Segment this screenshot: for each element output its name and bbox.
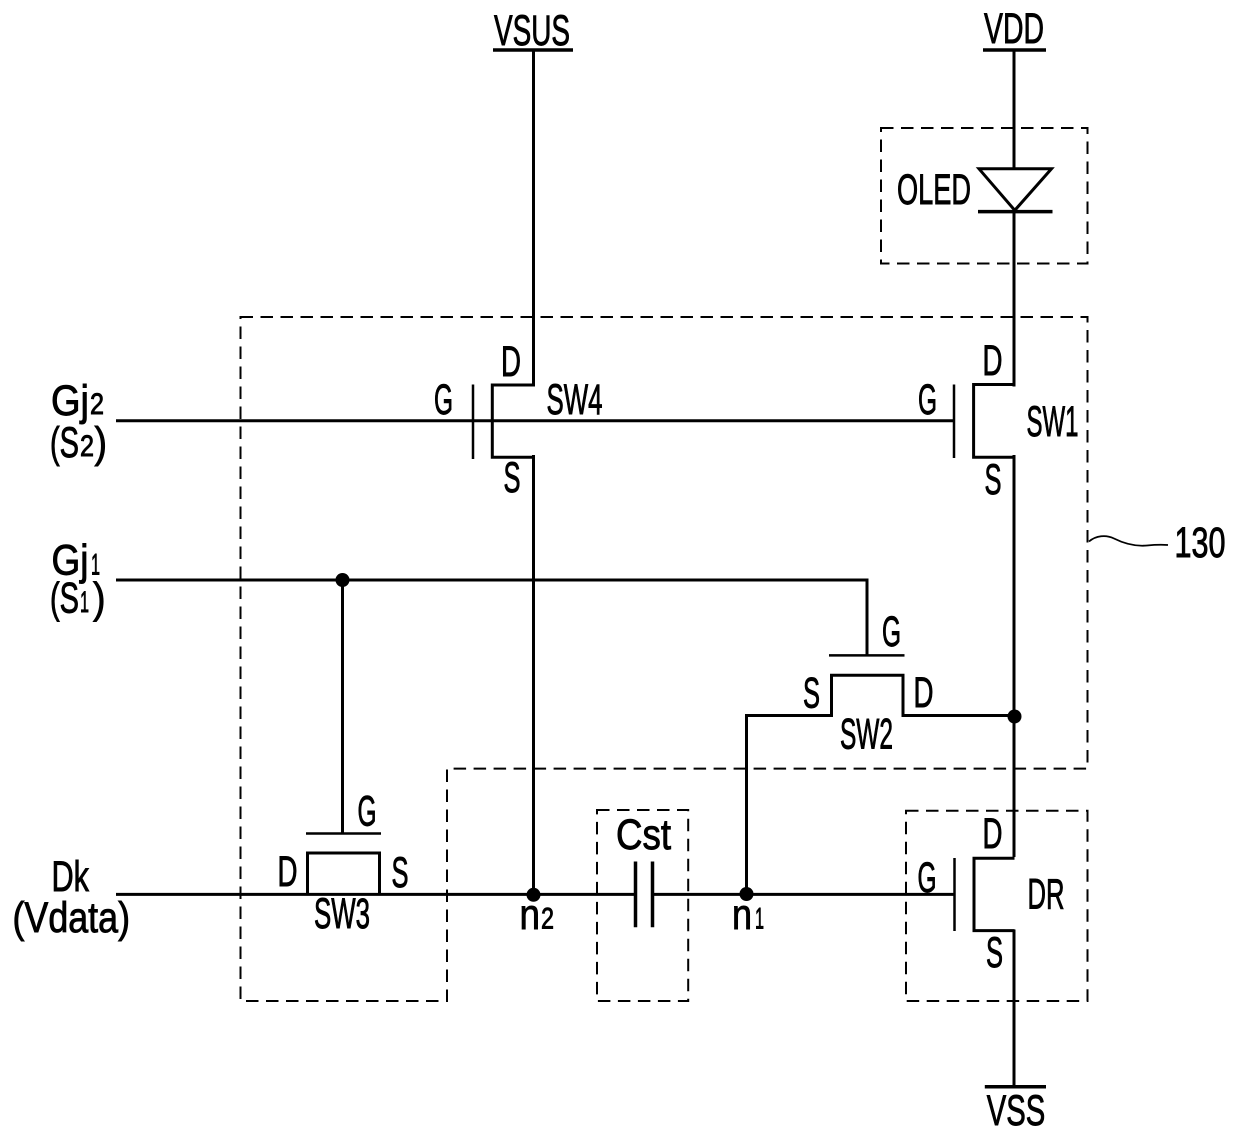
svg-text:VDD: VDD [984, 5, 1044, 53]
wire SW1 source down through node to DR drain [1013, 455, 1016, 857]
svg-text:VSS: VSS [987, 1087, 1046, 1135]
svg-text:S: S [985, 456, 1002, 504]
svg-text:SW3: SW3 [314, 890, 370, 938]
svg-text:n: n [520, 891, 541, 939]
svg-text:D: D [983, 337, 1003, 385]
svg-text:S: S [986, 929, 1003, 977]
transistor SW4 channel body [492, 385, 533, 457]
wire Gj1 row line [116, 579, 868, 582]
svg-text:S: S [504, 454, 521, 502]
junction dot on Gj1 at SW3 gate riser [336, 573, 350, 587]
svg-text:S: S [803, 670, 820, 718]
wire OLED cathode to SW1 drain [1013, 212, 1016, 387]
svg-text:): ) [93, 575, 106, 623]
svg-text:SW4: SW4 [547, 376, 603, 424]
svg-text:G: G [918, 376, 937, 424]
svg-text:2: 2 [80, 430, 94, 463]
diode OLED cathode bar [978, 210, 1053, 214]
svg-text:2: 2 [541, 903, 554, 936]
wire SW2 gate riser [866, 579, 869, 656]
svg-text:2: 2 [90, 388, 104, 421]
svg-text:n: n [732, 891, 752, 939]
svg-text:G: G [358, 788, 377, 836]
svg-text:): ) [95, 419, 108, 467]
power VSS rail bar [985, 1085, 1046, 1089]
svg-text:1: 1 [80, 586, 89, 619]
svg-text:130: 130 [1175, 519, 1226, 567]
power VSUS rail bar [493, 48, 573, 52]
svg-text:OLED: OLED [897, 166, 971, 214]
svg-text:D: D [278, 848, 298, 896]
svg-text:G: G [918, 854, 937, 902]
node n2 junction dot [527, 888, 541, 902]
svg-text:G: G [434, 376, 453, 424]
node n1 junction dot [740, 887, 754, 901]
transistor DR channel body [974, 858, 1015, 930]
svg-text:Gj: Gj [51, 377, 89, 425]
wire SW3 gate riser [341, 580, 344, 833]
transistor SW2 gate bar [829, 654, 905, 657]
wire VDD to OLED anode [1013, 50, 1016, 170]
diode OLED triangle [979, 169, 1052, 211]
svg-text:VSUS: VSUS [494, 7, 570, 55]
transistor SW1 channel body [974, 385, 1014, 458]
svg-text:(S: (S [50, 419, 79, 467]
transistor SW1 gate bar [953, 385, 956, 459]
transistor DR gate bar [953, 858, 956, 931]
capacitor Cst left plate [634, 862, 638, 928]
wire Gj2 row line [116, 419, 953, 422]
svg-text:Cst: Cst [616, 811, 671, 859]
transistor SW3 gate bar [306, 832, 381, 835]
junction dot SW2 drain on SW1-DR line [1008, 710, 1022, 724]
svg-text:D: D [501, 338, 521, 386]
svg-text:S: S [392, 849, 409, 897]
svg-text:SW1: SW1 [1027, 398, 1079, 446]
transistor SW4 gate bar [472, 385, 475, 460]
wire VSUS vertical to SW4 drain [532, 50, 535, 387]
transistor SW3 channel body [308, 853, 380, 894]
transistor DR dashed box [906, 811, 1088, 1001]
wire DR source to VSS [1013, 930, 1016, 1087]
svg-text:(S: (S [50, 575, 79, 623]
wire SW2 source riser down to node n1 [745, 714, 748, 894]
capacitor Cst right plate [651, 862, 655, 928]
svg-text:SW2: SW2 [840, 711, 893, 759]
OLED dashed box [881, 128, 1088, 264]
svg-text:1: 1 [755, 903, 764, 936]
power VDD rail bar [983, 48, 1046, 52]
svg-text:D: D [983, 810, 1003, 858]
svg-text:(Vdata): (Vdata) [13, 894, 131, 942]
capacitor Cst dashed box [597, 810, 688, 1001]
wire SW4 source down to node n2 [532, 455, 535, 895]
wire Cst right plate to DR gate [653, 893, 955, 896]
pixel circuit 130 dashed outline [241, 317, 1088, 1001]
squiggle leader to 130 [1089, 536, 1168, 546]
transistor SW2 channel body and stubs [747, 675, 1015, 715]
wire Dk data line to Cst left plate [116, 893, 636, 896]
svg-text:DR: DR [1028, 871, 1065, 919]
svg-text:D: D [914, 669, 934, 717]
svg-text:G: G [882, 608, 901, 656]
